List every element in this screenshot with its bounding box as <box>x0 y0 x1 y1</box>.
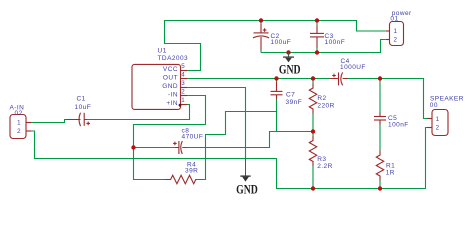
svg-text:TDA2003: TDA2003 <box>158 55 189 62</box>
wire ground cap rail to power pin2 <box>261 40 386 53</box>
capacitor C4 symbol <box>330 72 348 85</box>
U1 pin 2 stub <box>181 95 188 97</box>
wire C8 left stub <box>134 147 176 149</box>
svg-text:470UF: 470UF <box>182 134 204 141</box>
svg-text:220R: 220R <box>317 102 334 109</box>
svg-text:1: 1 <box>181 97 185 104</box>
svg-text:39nF: 39nF <box>286 99 303 106</box>
svg-text:5: 5 <box>181 63 185 70</box>
svg-text:2.2R: 2.2R <box>317 163 333 170</box>
svg-text:OUT: OUT <box>163 74 178 81</box>
wire VCC net: pin5 up over to top rail and power pin1 <box>165 21 386 71</box>
capacitor C7 symbol <box>271 82 283 99</box>
wire C7 bottom zigzag route to R4 right <box>198 99 277 180</box>
wire C5 to R1 <box>379 125 381 151</box>
svg-text:GND: GND <box>279 63 301 77</box>
svg-text:GND: GND <box>236 183 258 197</box>
ground symbol GND bottom <box>236 159 258 197</box>
U1 pin 4 stub <box>181 78 188 80</box>
wire C5 top stub <box>379 79 381 113</box>
svg-text:02: 02 <box>15 110 23 117</box>
svg-text:10uF: 10uF <box>75 104 92 111</box>
resistor R1 zigzag <box>376 151 383 181</box>
ground symbol GND top <box>279 53 301 77</box>
svg-text:R2: R2 <box>317 95 326 102</box>
wire C2 vertical stubs <box>260 21 262 53</box>
capacitor C2 symbol <box>253 24 269 50</box>
svg-text:1R: 1R <box>386 169 395 176</box>
wire OUT net: pin4 to C4 and speaker pin1 <box>187 79 427 119</box>
SPEAKER pin 2 stub <box>427 127 432 129</box>
A-IN pin 2 stub <box>26 130 31 132</box>
svg-text:2: 2 <box>181 88 185 95</box>
capacitor C5 symbol <box>374 113 386 125</box>
svg-text:100nF: 100nF <box>325 39 346 46</box>
svg-text:GND: GND <box>162 83 178 90</box>
U1 pin 1 stub <box>181 104 188 106</box>
svg-text:+IN: +IN <box>166 100 178 107</box>
junction dot R2/R3 feedback node <box>311 129 315 133</box>
A-IN pin 1 stub <box>26 122 31 124</box>
resistor R2 zigzag <box>309 84 316 114</box>
svg-text:C1: C1 <box>77 96 86 103</box>
capacitor C1 symbol <box>66 113 90 127</box>
svg-text:4: 4 <box>181 71 185 78</box>
svg-text:39R: 39R <box>185 168 198 175</box>
junction dot R1 bottom on ground rail <box>378 186 382 190</box>
wire C8 right to feedback node <box>187 132 314 148</box>
svg-text:100uF: 100uF <box>271 39 292 46</box>
wire R2 bottom to feedback node <box>312 114 314 132</box>
U1 pin 3 stub <box>181 87 188 89</box>
wire C3 vertical stubs <box>316 21 318 53</box>
connector A-IN box <box>10 115 26 139</box>
junction dot R2 top on OUT wire <box>311 76 315 80</box>
junction dot C7 top on OUT wire <box>274 76 278 80</box>
connector SPEAKER box <box>432 110 448 136</box>
junction dot U1 +IN pin <box>179 104 182 107</box>
wire C7 top stub <box>276 79 278 83</box>
resistor R3 zigzag <box>309 136 316 166</box>
svg-text:1: 1 <box>393 28 397 35</box>
wire R2 top stub <box>312 79 314 84</box>
wire R1 bottom stub <box>379 181 381 189</box>
svg-text:01: 01 <box>390 16 398 23</box>
wire GND net: pin3 down to ground symbol <box>187 88 246 159</box>
wire R4 left leg <box>134 148 165 180</box>
power pin 2 stub <box>386 39 390 41</box>
svg-text:00: 00 <box>430 102 438 109</box>
svg-text:U1: U1 <box>158 48 167 55</box>
svg-text:2: 2 <box>393 37 397 44</box>
junction dot C3 bottom on cap rail <box>315 50 319 54</box>
junction dot R3 bottom on ground rail <box>311 186 315 190</box>
svg-text:1: 1 <box>436 116 440 123</box>
connector power box <box>390 22 404 46</box>
svg-text:1: 1 <box>17 120 21 127</box>
svg-text:-IN: -IN <box>168 91 178 98</box>
junction dot C5 branch on OUT wire <box>378 76 382 80</box>
junction dot C3 top rail <box>315 18 319 22</box>
wire C7 descent to feedback node <box>276 112 278 132</box>
wire R3 bottom stub <box>312 166 314 189</box>
wire R3 top stub <box>312 132 314 137</box>
capacitor C3 symbol <box>310 26 324 48</box>
power pin 1 stub <box>386 30 390 32</box>
U1 pin 5 stub <box>181 70 188 72</box>
svg-text:3: 3 <box>181 80 185 87</box>
junction dot C8/R4 left node <box>131 145 135 149</box>
svg-text:1000UF: 1000UF <box>340 64 366 71</box>
svg-text:C7: C7 <box>286 91 295 98</box>
op-amp U1 TDA2003 box <box>132 64 181 109</box>
svg-text:2: 2 <box>17 128 21 135</box>
svg-text:100nF: 100nF <box>388 122 409 129</box>
junction dot GND1 stem on cap rail <box>286 50 290 54</box>
junction dot C2 top rail <box>259 18 263 22</box>
wire -IN net: pin2 to C8/R4 left node <box>134 96 206 148</box>
capacitor C8 symbol <box>173 141 186 154</box>
wire input +IN net: A-IN pin1 via C1 to U1 pin1 <box>31 105 190 123</box>
SPEAKER pin 1 stub <box>427 118 432 120</box>
wire A-IN pin2 down to ground rail and speaker pin2 <box>31 128 427 189</box>
resistor R4 zigzag with stubs <box>165 175 198 183</box>
svg-text:VCC: VCC <box>163 66 178 73</box>
svg-text:2: 2 <box>436 124 440 131</box>
svg-text:R3: R3 <box>317 156 326 163</box>
